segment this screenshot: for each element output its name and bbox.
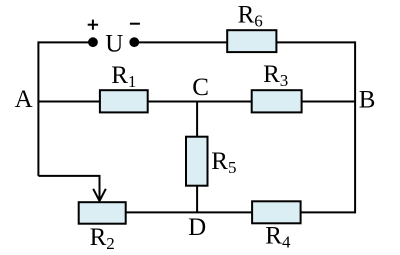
node - terminal dot (129, 37, 139, 47)
resistor R2 (rheostat) (79, 202, 126, 224)
wire R5 branch: node C down to node D (196, 102, 198, 213)
minus sign (130, 23, 140, 25)
wire bottom: R2 to node D through R4 to right rail (126, 211, 355, 213)
svg-text:B: B (359, 87, 376, 114)
node + terminal dot (88, 37, 98, 47)
resistor R1 (100, 90, 148, 112)
wire top-left: from + terminal left to corner above node A (38, 42, 89, 176)
resistor R3 (252, 90, 302, 112)
resistor R5 (186, 137, 208, 186)
plus sign (88, 20, 98, 30)
wire jog to R2 wiper (38, 176, 99, 201)
wire right rail: vertical through node B (354, 41, 356, 213)
wire top-right: from - terminal through R6 to right rail (139, 41, 356, 43)
svg-text:U: U (105, 30, 123, 57)
resistor R4 (252, 201, 301, 223)
svg-text:A: A (15, 86, 33, 113)
resistor R6 (227, 30, 276, 52)
svg-text:D: D (188, 214, 206, 241)
svg-text:C: C (192, 74, 209, 101)
wire middle: node A to node C to node B (38, 101, 355, 103)
wiper arrowhead onto R2 (93, 189, 106, 201)
